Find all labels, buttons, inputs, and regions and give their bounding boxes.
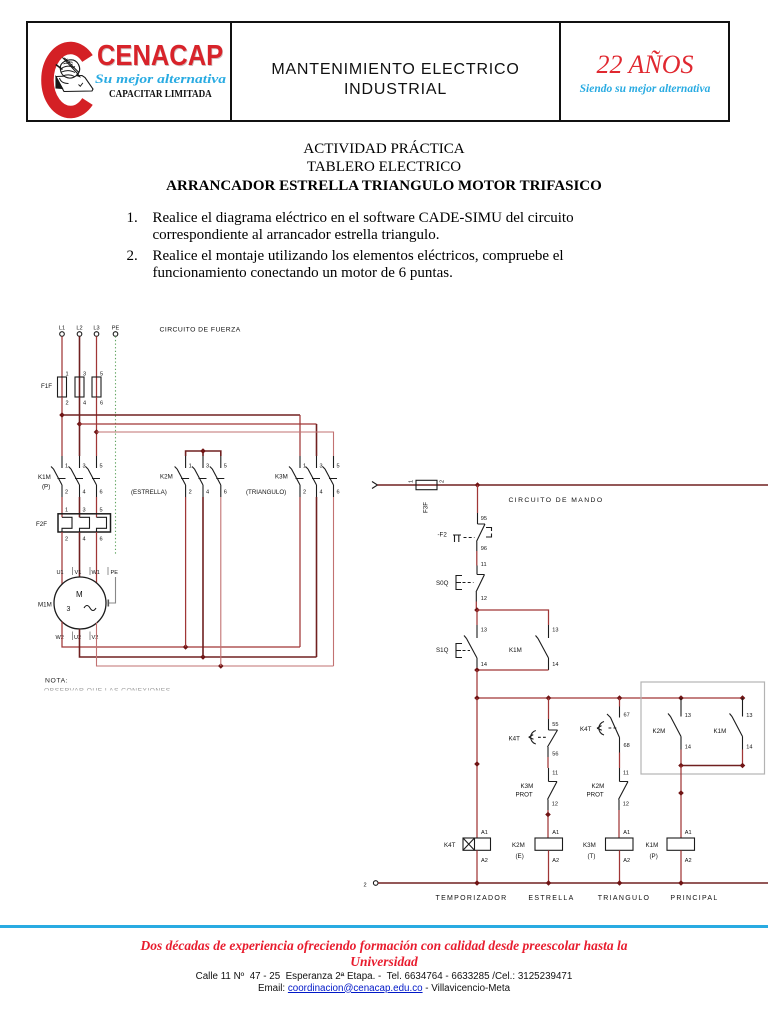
svg-text:TRIANGULO: TRIANGULO <box>598 895 651 902</box>
junction aux link left <box>678 763 684 769</box>
svg-text:13: 13 <box>481 628 487 634</box>
wire F2F to motor V1 <box>79 532 81 578</box>
logo hand sketch <box>56 58 93 92</box>
thermal relay F2F <box>36 508 111 543</box>
svg-text:K2M: K2M <box>592 783 605 790</box>
svg-text:11: 11 <box>552 771 558 777</box>
svg-text:L3: L3 <box>93 326 99 332</box>
svg-text:12: 12 <box>552 802 558 808</box>
svg-text:96: 96 <box>481 546 487 552</box>
junction K2M pole3 line3 <box>218 663 224 669</box>
wire S1Q stub <box>476 610 478 625</box>
wire L2 fuse to contactor <box>79 397 81 456</box>
svg-text:L2: L2 <box>76 326 82 332</box>
wire through fuse pole3 <box>96 377 98 397</box>
svg-text:K2M: K2M <box>653 728 666 735</box>
svg-text:4: 4 <box>83 490 86 496</box>
wire motor W2 to star/delta line 1 <box>62 622 300 648</box>
wire bus A to K3M pole 1 <box>62 414 300 416</box>
svg-text:A1: A1 <box>481 830 488 836</box>
svg-text:3: 3 <box>320 464 323 470</box>
wire motor U2 to star/delta line 2 <box>80 629 317 657</box>
svg-text:CIRCUITO DE MANDO: CIRCUITO DE MANDO <box>509 497 604 504</box>
svg-text:W1: W1 <box>92 570 100 576</box>
wire K2M coil to rail <box>548 850 550 883</box>
svg-text:3: 3 <box>67 606 71 613</box>
svg-text:6: 6 <box>100 401 103 407</box>
coil K2M (E) <box>512 830 563 864</box>
junction L2 bus B <box>77 421 83 427</box>
junction K2M pole1 line1 <box>183 644 189 650</box>
svg-text:K1M: K1M <box>38 474 51 481</box>
svg-text:K2M: K2M <box>160 474 173 481</box>
svg-text:K1M: K1M <box>646 842 659 849</box>
wire bus C to K3M pole 3 <box>97 432 334 456</box>
svg-text:U1: U1 <box>57 570 64 576</box>
wire L3 fuse to contactor <box>96 397 98 456</box>
svg-text:A2: A2 <box>623 858 630 864</box>
svg-text:(ESTRELLA): (ESTRELLA) <box>131 489 167 496</box>
svg-text:6: 6 <box>100 537 103 543</box>
svg-text:K2M: K2M <box>512 842 525 849</box>
svg-text:PE: PE <box>111 570 119 576</box>
svg-text:6: 6 <box>337 490 340 496</box>
svg-text:L1: L1 <box>59 326 65 332</box>
svg-text:ESTRELLA: ESTRELLA <box>528 895 574 902</box>
wire PE green dashed <box>115 336 117 555</box>
wire motor V2 to star/delta line 3 <box>97 623 334 667</box>
svg-text:PE: PE <box>112 326 120 332</box>
wire K3M pole2 down to line2 <box>316 497 318 657</box>
terminal L1 <box>59 326 65 337</box>
svg-text:F2F: F2F <box>36 521 47 528</box>
svg-text:PROT: PROT <box>587 792 604 799</box>
svg-text:4: 4 <box>320 490 323 496</box>
wire L1 fuse to contactor <box>61 397 63 456</box>
wire seal-in top link <box>477 610 549 625</box>
svg-text:14: 14 <box>552 662 558 668</box>
svg-text:14: 14 <box>685 745 691 751</box>
svg-text:A1: A1 <box>685 830 692 836</box>
timer coil K4T <box>444 830 491 864</box>
svg-text:K3M: K3M <box>275 474 288 481</box>
junction aux link right <box>740 763 746 769</box>
svg-text:5: 5 <box>100 464 103 470</box>
junction bus 4 <box>678 695 684 701</box>
svg-text:13: 13 <box>685 713 691 719</box>
wire L1 to fuse <box>61 336 63 377</box>
svg-text:56: 56 <box>552 752 558 758</box>
wire principal branch <box>680 766 682 839</box>
contactor K3M (TRIANGULO) power contacts <box>289 456 337 497</box>
svg-text:A1: A1 <box>552 830 559 836</box>
svg-text:3: 3 <box>83 508 86 514</box>
fuse F3F <box>409 480 446 513</box>
contact K4T NC timed <box>509 719 559 758</box>
svg-text:11: 11 <box>623 771 629 777</box>
wire K2M aux down <box>680 750 682 766</box>
svg-text:13: 13 <box>552 628 558 634</box>
wire through fuse pole1 <box>61 377 63 397</box>
fuse F1F <box>41 372 103 407</box>
svg-text:2: 2 <box>66 401 69 407</box>
note text <box>40 678 180 695</box>
svg-text:K4T: K4T <box>444 842 456 849</box>
junction K2M pole2 line2 <box>200 654 206 660</box>
wire L3 to fuse <box>96 336 98 377</box>
svg-text:5: 5 <box>224 464 227 470</box>
node 2 terminal <box>364 881 379 889</box>
svg-text:K1M: K1M <box>714 728 727 735</box>
node L line start arrow <box>372 482 378 489</box>
svg-text:1: 1 <box>303 464 306 470</box>
wire K1M aux down <box>742 750 744 766</box>
svg-text:CIRCUITO DE FUERZA: CIRCUITO DE FUERZA <box>160 327 241 334</box>
svg-text:12: 12 <box>623 802 629 808</box>
svg-text:6: 6 <box>100 490 103 496</box>
terminal PE <box>112 326 120 337</box>
wire triangulo branch <box>619 698 621 707</box>
svg-text:M1M: M1M <box>38 602 52 609</box>
wire K1M to F2F pole3 <box>96 497 98 517</box>
contact K2M aux NO <box>653 698 692 751</box>
svg-text:A2: A2 <box>552 858 559 864</box>
coil K1M (P) <box>646 830 695 864</box>
svg-text:TEMPORIZADOR: TEMPORIZADOR <box>436 895 508 902</box>
svg-text:4: 4 <box>83 401 86 407</box>
wire K2M pole2 drop <box>202 497 204 657</box>
wire to K2M coil <box>547 810 549 838</box>
svg-text:-F2: -F2 <box>438 532 448 539</box>
svg-text:(TRIANGULO): (TRIANGULO) <box>246 489 286 496</box>
pushbutton S1Q NO <box>436 625 487 670</box>
svg-text:A2: A2 <box>685 858 692 864</box>
wire K3M coil to rail <box>619 850 621 883</box>
svg-text:14: 14 <box>746 745 752 751</box>
junction seal-in top <box>474 607 480 613</box>
svg-text:3: 3 <box>206 464 209 470</box>
svg-text:12: 12 <box>481 596 487 602</box>
wire K3M pole3 down to line3 <box>333 497 335 666</box>
wire S0Q to node <box>475 602 477 611</box>
motor terminal labels W2 U2 V2 <box>56 632 99 642</box>
contactor K1M (P) power contacts <box>51 456 100 497</box>
wire through fuse pole2 <box>79 377 81 397</box>
footer divider line <box>0 925 768 928</box>
wire timer branch <box>476 698 478 838</box>
wire PE to motor <box>108 577 115 607</box>
contact K1M aux NO <box>714 698 753 751</box>
svg-text:PROT: PROT <box>516 792 533 799</box>
svg-text:2: 2 <box>65 490 68 496</box>
junction estrella <box>545 812 551 818</box>
svg-text:F1F: F1F <box>41 383 52 390</box>
svg-text:M: M <box>76 590 83 599</box>
svg-text:F3F: F3F <box>423 502 430 513</box>
contact K1M seal-in NO <box>509 625 559 670</box>
svg-text:4: 4 <box>206 490 209 496</box>
pushbutton S0Q NC <box>436 562 487 602</box>
svg-text:67: 67 <box>624 713 630 719</box>
terminal L3 <box>93 326 99 337</box>
wire K1M to F2F pole2 <box>79 497 81 517</box>
svg-text:2: 2 <box>65 537 68 543</box>
svg-text:1: 1 <box>65 464 68 470</box>
wire bus B to K3M pole 2 <box>80 423 317 425</box>
junction timer branch <box>474 761 480 767</box>
svg-text:11: 11 <box>481 562 487 568</box>
svg-text:55: 55 <box>552 722 558 728</box>
logo cell <box>0 0 240 130</box>
junction bus 1 <box>474 695 480 701</box>
wire L2 to fuse <box>79 336 81 377</box>
right cell <box>561 50 729 80</box>
junction top rail <box>475 482 481 488</box>
svg-text:3: 3 <box>83 464 86 470</box>
svg-text:1: 1 <box>189 464 192 470</box>
junction rail 2 <box>546 880 552 886</box>
motor M1M <box>38 577 106 629</box>
junction bus 3 <box>617 695 623 701</box>
wire top rail <box>378 484 768 486</box>
wire F2 to S0Q <box>476 551 478 566</box>
motor terminal labels U1 V1 W1 PE <box>57 567 119 576</box>
wire K4T NO to K2M PROT <box>619 753 621 769</box>
svg-text:2: 2 <box>440 480 446 483</box>
svg-text:95: 95 <box>481 516 487 522</box>
wire K2M pole3 drop <box>220 497 222 666</box>
coil K3M (T) <box>583 830 633 864</box>
svg-text:(P): (P) <box>42 484 50 491</box>
terminal L2 <box>76 326 82 337</box>
svg-text:V2: V2 <box>92 635 99 641</box>
svg-text:W2: W2 <box>56 635 64 641</box>
junction bus 5 <box>740 695 746 701</box>
svg-text:14: 14 <box>481 662 487 668</box>
wire timer coil to rail <box>476 850 478 883</box>
wire K3M pole1 down to line1 <box>299 497 301 647</box>
logo big C <box>47 48 87 112</box>
contact -F2 NC thermal <box>438 513 492 552</box>
wire aux bottom link <box>681 765 743 767</box>
svg-text:K3M: K3M <box>583 842 596 849</box>
wire F2F to motor W1 <box>96 532 98 584</box>
selection gray box <box>641 682 765 774</box>
wire estrella branch <box>548 698 550 719</box>
svg-text:5: 5 <box>100 372 103 378</box>
junction rail 4 <box>678 880 684 886</box>
wire bottom rail <box>378 882 768 884</box>
junction seal-in bottom <box>474 667 480 673</box>
wire K1M to F2F pole1 <box>61 497 63 517</box>
contact K4T NO timed <box>580 707 630 753</box>
svg-text:NOTA:: NOTA: <box>45 678 68 685</box>
star bridge on K2M <box>186 448 221 456</box>
junction rail 3 <box>617 880 623 886</box>
svg-text:6: 6 <box>224 490 227 496</box>
wire K1M coil to rail <box>680 850 682 883</box>
svg-text:2: 2 <box>364 883 367 889</box>
svg-text:V1: V1 <box>75 570 82 576</box>
wire node to bus <box>476 670 478 698</box>
svg-text:3: 3 <box>83 372 86 378</box>
svg-text:K3M: K3M <box>521 783 534 790</box>
contact K3M PROT NC <box>516 768 559 810</box>
svg-text:1: 1 <box>65 508 68 514</box>
svg-text:K4T: K4T <box>580 726 592 733</box>
junction rail 1 <box>474 880 480 886</box>
svg-text:K1M: K1M <box>509 647 522 654</box>
svg-text:PRINCIPAL: PRINCIPAL <box>670 895 718 902</box>
middle cell <box>232 60 559 100</box>
svg-text:5: 5 <box>337 464 340 470</box>
svg-text:2: 2 <box>303 490 306 496</box>
svg-text:S1Q: S1Q <box>436 647 449 654</box>
wire F2F to motor U1 <box>61 532 63 584</box>
svg-text:K4T: K4T <box>509 736 521 743</box>
junction L1 bus A <box>59 412 65 418</box>
svg-text:1: 1 <box>409 480 415 483</box>
junction bus 2 <box>546 695 552 701</box>
junction principal <box>678 790 684 796</box>
junction L3 bus C <box>94 429 100 435</box>
svg-text:5: 5 <box>100 508 103 514</box>
contact K2M PROT NC <box>587 768 630 810</box>
svg-text:1: 1 <box>66 372 69 378</box>
svg-text:A1: A1 <box>623 830 630 836</box>
wire to K3M coil <box>618 810 620 838</box>
wire K4T NC to K3M PROT <box>547 757 549 768</box>
svg-text:(E): (E) <box>516 853 524 860</box>
contactor K2M (ESTRELLA) power contacts <box>175 456 225 497</box>
svg-text:68: 68 <box>624 743 630 749</box>
svg-text:2: 2 <box>189 490 192 496</box>
wire seal-in bottom link <box>477 669 549 671</box>
svg-text:S0Q: S0Q <box>436 580 449 587</box>
wire rail to F2 <box>477 485 479 513</box>
svg-text:(P): (P) <box>650 853 658 860</box>
wire control bus <box>477 697 743 699</box>
svg-text:A2: A2 <box>481 858 488 864</box>
svg-text:(T): (T) <box>588 853 596 860</box>
svg-text:13: 13 <box>746 713 752 719</box>
wire K2M pole1 drop <box>185 497 187 647</box>
svg-text:4: 4 <box>83 537 86 543</box>
